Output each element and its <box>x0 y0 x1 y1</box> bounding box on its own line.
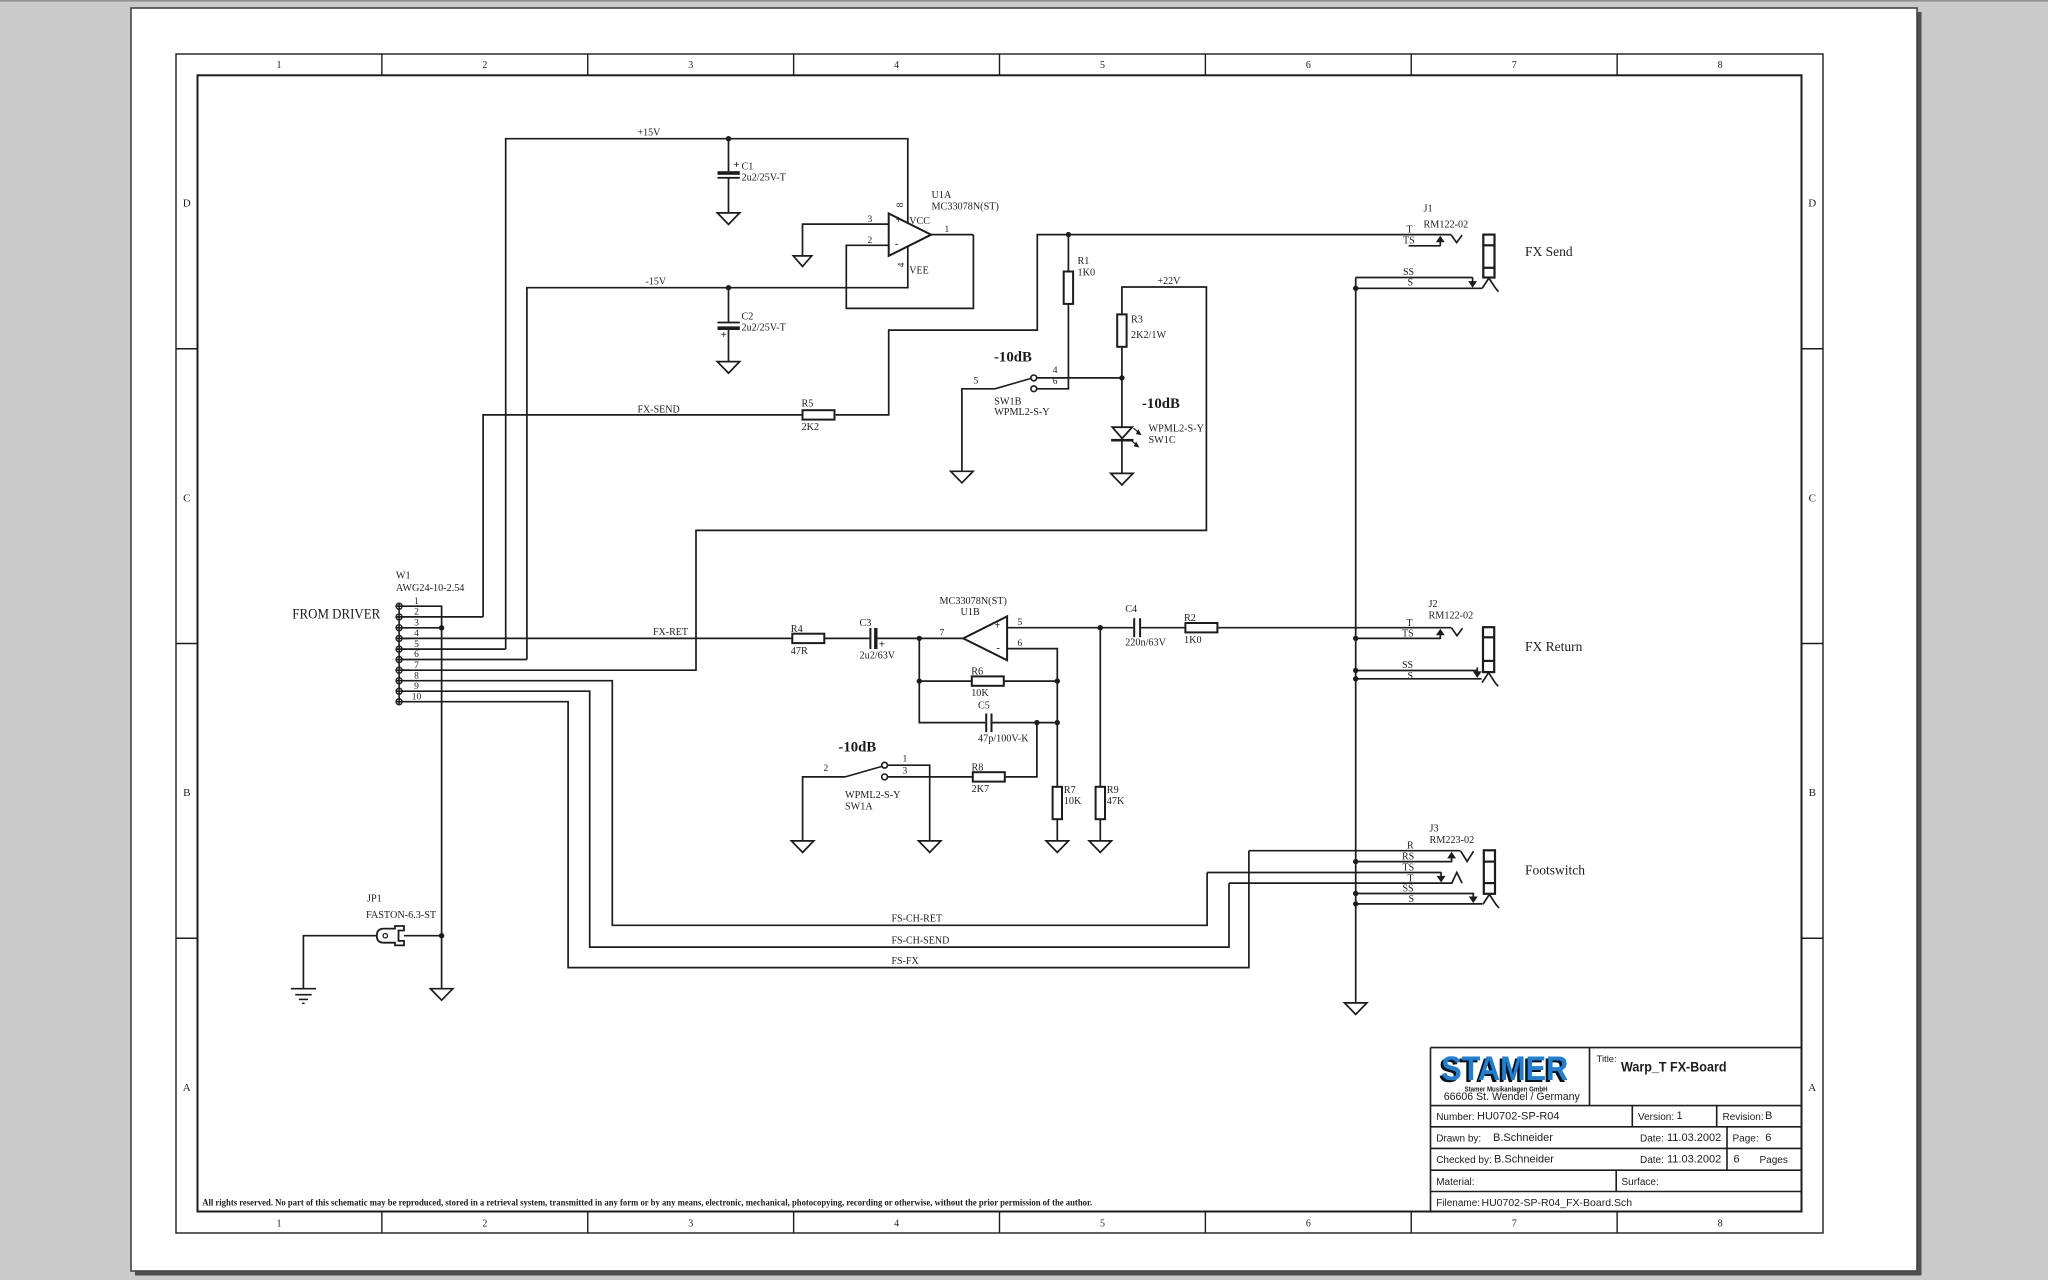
svg-text:RM122-02: RM122-02 <box>1424 219 1469 230</box>
svg-text:1: 1 <box>276 1219 281 1230</box>
svg-text:47R: 47R <box>791 646 808 657</box>
svg-text:4: 4 <box>1053 366 1058 376</box>
svg-text:J2: J2 <box>1429 599 1438 610</box>
wire W1 pin2 <box>396 616 483 618</box>
junction R3/LED/SW1B node <box>1119 375 1124 380</box>
svg-text:7: 7 <box>940 629 945 639</box>
wire U1A pin3 to ground <box>803 224 889 256</box>
wire W1 pin8 FS-CH-RET <box>396 681 1207 926</box>
svg-text:1: 1 <box>276 60 281 71</box>
resistor R1 <box>1064 272 1073 304</box>
svg-text:+: + <box>733 159 739 171</box>
wire C4 to R2 <box>1141 627 1185 629</box>
junction J2 SS <box>1353 668 1358 673</box>
capacitor C4 <box>1133 618 1135 637</box>
svg-text:R4: R4 <box>791 624 803 635</box>
wire W1 pin9 FS-CH-SEND <box>396 691 1229 947</box>
junction R6 left <box>917 678 922 683</box>
svg-text:10K: 10K <box>1064 796 1082 807</box>
resistor R9 <box>1096 787 1105 819</box>
svg-text:R7: R7 <box>1064 785 1076 796</box>
svg-text:MC33078N(ST): MC33078N(ST) <box>940 596 1007 607</box>
resistor R3 <box>1117 314 1126 346</box>
svg-text:B: B <box>183 787 190 799</box>
switch SW1B <box>995 379 1031 389</box>
wire J3 S contact <box>1356 903 1483 905</box>
svg-text:HU0702-SP-R04: HU0702-SP-R04 <box>1477 1111 1560 1123</box>
svg-text:2: 2 <box>482 60 487 71</box>
wire SW1A pin2 to ground <box>803 777 846 841</box>
wire U1B pin5 net <box>1007 627 1133 629</box>
svg-text:STAMER: STAMER <box>1441 1050 1568 1088</box>
wire U1B pin6 net <box>1007 649 1057 787</box>
svg-text:+: + <box>995 620 1001 631</box>
svg-text:FX Send: FX Send <box>1525 244 1573 259</box>
wire LED to ground <box>1121 441 1123 474</box>
ground SW1B pin5 <box>951 471 973 483</box>
svg-text:Checked by:: Checked by: <box>1436 1155 1492 1166</box>
frame column ticks and numbers <box>381 54 383 75</box>
svg-text:T: T <box>1407 618 1413 629</box>
svg-text:FX-SEND: FX-SEND <box>638 405 680 416</box>
wire FX-SEND net <box>483 415 802 617</box>
junction J2 S <box>1353 676 1358 681</box>
svg-text:VEE: VEE <box>909 266 928 277</box>
svg-text:Footswitch: Footswitch <box>1525 863 1585 878</box>
frame inner border <box>198 75 1802 1211</box>
wire J1 TS contact <box>1409 245 1441 247</box>
svg-text:VCC: VCC <box>909 216 930 227</box>
svg-text:Warp_T FX-Board: Warp_T FX-Board <box>1621 1059 1727 1074</box>
wire C2 stem <box>728 288 730 362</box>
svg-text:A: A <box>1808 1082 1816 1094</box>
wire SW1A pin1 to ground <box>888 765 930 841</box>
svg-text:B.Schneider: B.Schneider <box>1494 1154 1554 1166</box>
svg-text:10K: 10K <box>971 688 989 699</box>
junction pin5/C4/R9 <box>1098 625 1103 630</box>
wire VCC stub <box>907 139 909 223</box>
wire J2 TS contact <box>1356 637 1441 639</box>
capacitor C2 <box>718 322 740 324</box>
svg-text:5: 5 <box>974 376 979 386</box>
resistor R2 <box>1185 623 1217 632</box>
svg-text:3: 3 <box>688 60 693 71</box>
svg-text:MC33078N(ST): MC33078N(ST) <box>932 202 999 213</box>
svg-text:3: 3 <box>868 215 873 225</box>
wire SW1A pin3 to R8 <box>888 776 973 778</box>
junction C2 -15V <box>726 285 731 290</box>
wire R7 to ground <box>1056 819 1058 841</box>
jack J3 body <box>1484 850 1495 894</box>
svg-text:220n/63V: 220n/63V <box>1125 638 1166 649</box>
svg-text:R6: R6 <box>971 667 983 678</box>
svg-text:W1: W1 <box>396 571 411 582</box>
svg-text:6: 6 <box>1734 1154 1740 1166</box>
wire C5 row <box>919 681 1057 723</box>
svg-text:FS-CH-RET: FS-CH-RET <box>892 914 943 925</box>
svg-text:S: S <box>1408 671 1414 682</box>
svg-text:8: 8 <box>896 202 906 207</box>
svg-text:FX-RET: FX-RET <box>653 627 688 638</box>
svg-text:SS: SS <box>1402 660 1413 671</box>
svg-text:C: C <box>1809 492 1816 504</box>
jack J2 body <box>1483 627 1494 672</box>
svg-text:7: 7 <box>1512 60 1517 71</box>
wire R8 riser <box>1006 723 1037 777</box>
junction W1 pin3 gnd <box>439 625 444 630</box>
wire JP1 to earth <box>303 936 376 989</box>
svg-text:8: 8 <box>1718 1219 1723 1230</box>
svg-text:FS-CH-SEND: FS-CH-SEND <box>892 935 950 946</box>
svg-text:8: 8 <box>1718 60 1723 71</box>
svg-text:RM122-02: RM122-02 <box>1429 611 1474 622</box>
svg-text:C: C <box>183 492 190 504</box>
wire C3 to U1B input <box>878 637 964 639</box>
svg-text:11.03.2002: 11.03.2002 <box>1667 1132 1721 1144</box>
wire SW1B pin4 to R3/LED node <box>1037 377 1122 379</box>
wire gnd bus bottom <box>441 936 443 989</box>
junction C1 +15V <box>726 136 731 141</box>
svg-text:HU0702-SP-R04_FX-Board.Sch: HU0702-SP-R04_FX-Board.Sch <box>1482 1197 1633 1209</box>
capacitor C5 <box>985 714 987 733</box>
svg-text:-10dB: -10dB <box>1142 396 1180 412</box>
wire -15V rail <box>527 247 908 660</box>
jack J2 tip contact <box>1452 628 1463 636</box>
svg-text:66606 St. Wendel / Germany: 66606 St. Wendel / Germany <box>1444 1091 1581 1103</box>
ground sleeve bus <box>1345 1003 1367 1015</box>
svg-text:-15V: -15V <box>646 277 667 288</box>
ground LED <box>1111 473 1133 485</box>
svg-text:JP1: JP1 <box>367 894 382 905</box>
svg-text:RM223-02: RM223-02 <box>1430 835 1475 846</box>
wire J1 SS contact <box>1356 278 1473 289</box>
resistor R5 <box>803 410 835 419</box>
svg-text:2: 2 <box>824 764 829 774</box>
svg-text:5: 5 <box>1100 60 1105 71</box>
svg-text:Filename:: Filename: <box>1436 1198 1480 1209</box>
svg-text:1: 1 <box>903 755 908 765</box>
wire R9 branch <box>1099 628 1101 841</box>
svg-text:3: 3 <box>688 1219 693 1230</box>
svg-text:Drawn by:: Drawn by: <box>1436 1134 1481 1145</box>
capacitor C3 <box>869 628 871 649</box>
svg-text:5: 5 <box>1018 618 1023 628</box>
junction J1 S/SS <box>1353 286 1358 291</box>
resistor R7 <box>1053 787 1062 819</box>
wire J1 S contact <box>1356 287 1483 289</box>
ground W1/JP1 bus <box>430 989 452 1001</box>
svg-text:FASTON-6.3-ST: FASTON-6.3-ST <box>366 910 437 921</box>
op-amp U1A <box>889 214 931 256</box>
capacitor C1 <box>718 171 740 175</box>
svg-text:S: S <box>1408 278 1414 289</box>
svg-text:WPML2-S-Y: WPML2-S-Y <box>1149 424 1205 435</box>
svg-text:2K7: 2K7 <box>972 784 990 795</box>
jack J3 ring contact wire <box>1249 850 1461 852</box>
svg-text:U1B: U1B <box>961 607 980 618</box>
svg-text:FS-FX: FS-FX <box>892 956 920 967</box>
svg-text:-: - <box>895 239 898 250</box>
svg-text:5: 5 <box>1100 1219 1105 1230</box>
svg-text:2K2: 2K2 <box>802 422 820 433</box>
svg-text:11.03.2002: 11.03.2002 <box>1667 1154 1721 1166</box>
wire sleeve bus vertical <box>1355 288 1357 1003</box>
ground JP1 earth <box>291 988 316 990</box>
svg-text:AWG24-10-2.54: AWG24-10-2.54 <box>396 583 465 594</box>
connector W1 <box>396 603 402 609</box>
svg-text:J1: J1 <box>1424 204 1433 215</box>
svg-text:B: B <box>1765 1110 1772 1122</box>
wire J3 SS contact <box>1356 893 1474 895</box>
wire W1 pin5 <box>396 648 506 650</box>
svg-text:6: 6 <box>1306 60 1311 71</box>
wire SW1B pin5 to ground <box>962 389 995 472</box>
svg-text:6: 6 <box>1053 377 1058 387</box>
svg-text:Revision:: Revision: <box>1723 1112 1764 1123</box>
junction C5 right <box>1055 720 1060 725</box>
wire JP1 to ground bus <box>404 935 442 937</box>
wire U1A output <box>931 234 973 236</box>
svg-text:2: 2 <box>868 236 873 246</box>
junction J3 S <box>1353 901 1358 906</box>
wire +22V net from W1 pin7 <box>396 287 1206 670</box>
svg-text:C3: C3 <box>860 618 872 629</box>
svg-text:C1: C1 <box>742 161 754 172</box>
svg-text:D: D <box>1808 198 1816 210</box>
svg-text:7: 7 <box>1512 1219 1517 1230</box>
svg-text:-10dB: -10dB <box>994 350 1032 366</box>
svg-text:2u2/25V-T: 2u2/25V-T <box>742 322 787 333</box>
svg-text:6: 6 <box>1765 1132 1771 1144</box>
wire J3 T contact <box>1229 882 1452 884</box>
wire FX-SEND to J1 rail <box>836 235 1451 415</box>
svg-text:J3: J3 <box>1430 824 1439 835</box>
svg-text:T: T <box>1407 225 1413 236</box>
svg-text:Version:: Version: <box>1638 1112 1674 1123</box>
wire R3 bottom to node <box>1121 347 1123 378</box>
wire +15V rail <box>506 139 908 649</box>
svg-text:R2: R2 <box>1184 613 1196 624</box>
junction J3 SS <box>1353 891 1358 896</box>
ground SW1A pin2 <box>791 841 813 853</box>
svg-text:1K0: 1K0 <box>1184 635 1202 646</box>
svg-text:R: R <box>1407 841 1414 852</box>
svg-text:2K2/1W: 2K2/1W <box>1131 330 1166 341</box>
svg-text:Number:: Number: <box>1436 1112 1474 1123</box>
wire J2 SS contact <box>1356 670 1478 672</box>
svg-text:4: 4 <box>897 262 907 267</box>
page shadow <box>1917 12 1922 1275</box>
svg-text:R8: R8 <box>972 763 984 774</box>
svg-text:Page:: Page: <box>1733 1134 1759 1145</box>
junction C3 output node <box>917 636 922 641</box>
svg-text:R9: R9 <box>1107 785 1119 796</box>
svg-text:+15V: +15V <box>638 128 662 139</box>
svg-text:47K: 47K <box>1107 796 1125 807</box>
svg-text:6: 6 <box>1306 1219 1311 1230</box>
resistor R4 <box>792 634 824 643</box>
svg-text:2u2/25V-T: 2u2/25V-T <box>742 173 787 184</box>
svg-text:All rights reserved. No part o: All rights reserved. No part of this sch… <box>202 1198 1092 1208</box>
wire FX-RET R4 to C3 <box>824 637 869 639</box>
svg-text:+: + <box>879 638 885 650</box>
jack J1 tip contact <box>1451 235 1462 243</box>
svg-text:Pages: Pages <box>1760 1155 1788 1166</box>
svg-text:D: D <box>183 198 191 210</box>
svg-text:U1A: U1A <box>932 190 952 201</box>
junction J3 RS <box>1353 859 1358 864</box>
junction J2 TS <box>1353 636 1358 641</box>
svg-text:6: 6 <box>1018 639 1023 649</box>
op-amp U1B <box>963 616 1007 660</box>
ground U1A pin3 <box>793 256 811 267</box>
wire R6 feedback row <box>919 638 1057 681</box>
svg-text:R1: R1 <box>1078 256 1090 267</box>
junction C5/R8 node <box>1034 720 1039 725</box>
switch SW1A <box>845 767 881 777</box>
ground SW1A pin1 <box>919 841 941 853</box>
svg-text:C5: C5 <box>978 700 990 711</box>
frame row ticks and letters <box>176 348 198 350</box>
jack J3 ring tip contact <box>1461 851 1474 862</box>
svg-text:C4: C4 <box>1125 604 1137 615</box>
svg-text:1K0: 1K0 <box>1078 268 1096 279</box>
ground C1 <box>717 213 739 225</box>
junction R1 top <box>1066 232 1071 237</box>
svg-text:FROM DRIVER: FROM DRIVER <box>292 606 380 622</box>
svg-text:2: 2 <box>482 1219 487 1230</box>
jack J3 ring symbol <box>1452 872 1462 883</box>
svg-text:-10dB: -10dB <box>838 739 876 755</box>
svg-text:+: + <box>721 329 727 341</box>
wire W1 pin1 <box>396 606 441 936</box>
svg-text:A: A <box>183 1082 191 1094</box>
resistor R6 <box>972 676 1004 685</box>
svg-text:47p/100V-K: 47p/100V-K <box>978 733 1029 744</box>
svg-text:+: + <box>896 215 902 226</box>
wire C1 stem <box>728 139 730 213</box>
svg-text:SW1A: SW1A <box>845 801 873 812</box>
svg-text:Surface:: Surface: <box>1622 1177 1659 1188</box>
svg-text:WPML2-S-Y: WPML2-S-Y <box>845 790 901 801</box>
svg-text:4: 4 <box>894 60 899 71</box>
wire W1 pin3 <box>396 627 441 629</box>
wire node to LED <box>1121 378 1123 427</box>
svg-text:1: 1 <box>945 225 950 235</box>
wire R2 to J2 tip <box>1217 627 1451 629</box>
svg-text:B: B <box>1809 787 1816 799</box>
title block frame <box>1430 1048 1432 1212</box>
svg-text:7: 7 <box>414 661 419 671</box>
svg-text:C2: C2 <box>742 312 754 323</box>
svg-text:Material:: Material: <box>1436 1177 1474 1188</box>
svg-text:4: 4 <box>414 629 419 639</box>
ground R7 <box>1046 841 1068 853</box>
svg-text:WPML2-S-Y: WPML2-S-Y <box>994 407 1050 418</box>
svg-text:B.Schneider: B.Schneider <box>1493 1132 1553 1144</box>
svg-text:2u2/63V: 2u2/63V <box>860 651 896 662</box>
LED SW1C <box>1112 427 1132 438</box>
svg-text:R3: R3 <box>1131 315 1143 326</box>
svg-text:+22V: +22V <box>1158 276 1182 287</box>
svg-text:SS: SS <box>1403 267 1414 278</box>
svg-text:Date:: Date: <box>1640 1155 1664 1166</box>
svg-text:3: 3 <box>903 767 908 777</box>
junction R6 right <box>1055 678 1060 683</box>
wire J3 RS contact <box>1356 861 1452 863</box>
frame outer border <box>176 54 1823 1233</box>
wire FX-RET net <box>396 637 792 639</box>
svg-text:-: - <box>997 643 1000 654</box>
resistor R8 <box>973 772 1005 781</box>
svg-text:R5: R5 <box>802 398 814 409</box>
svg-text:4: 4 <box>894 1219 899 1230</box>
junction JP1 node <box>439 933 444 938</box>
svg-text:FX Return: FX Return <box>1525 639 1583 654</box>
wire U1A feedback loop <box>846 235 973 309</box>
svg-text:SW1B: SW1B <box>994 396 1021 407</box>
wire R1 branch <box>1037 235 1069 389</box>
ground C2 <box>717 362 739 374</box>
svg-text:SW1C: SW1C <box>1149 435 1176 446</box>
wire J2 S contact <box>1356 678 1482 680</box>
wire W1 pin10 FS-FX <box>396 702 1249 968</box>
jack J1 body <box>1483 235 1494 278</box>
wire W1 pin6 <box>396 659 527 661</box>
svg-text:Date:: Date: <box>1640 1134 1664 1145</box>
ground R9 <box>1089 841 1111 853</box>
wire J3 TS contact <box>1207 872 1441 874</box>
svg-text:Title:: Title: <box>1597 1054 1617 1065</box>
svg-text:1: 1 <box>1677 1110 1683 1122</box>
